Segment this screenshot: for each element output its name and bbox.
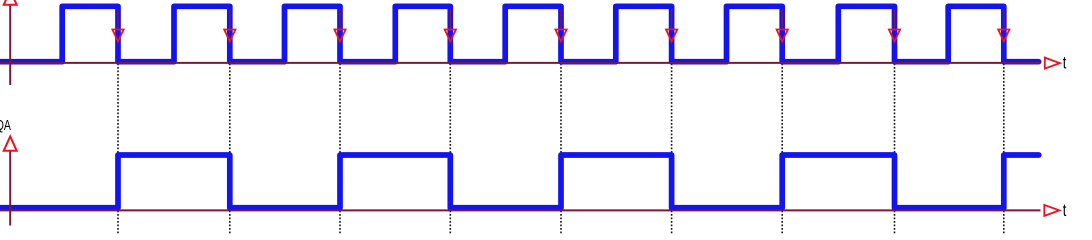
svg-text:QA: QA xyxy=(0,116,11,133)
svg-text:t: t xyxy=(1063,201,1067,221)
svg-text:t: t xyxy=(1063,54,1067,74)
